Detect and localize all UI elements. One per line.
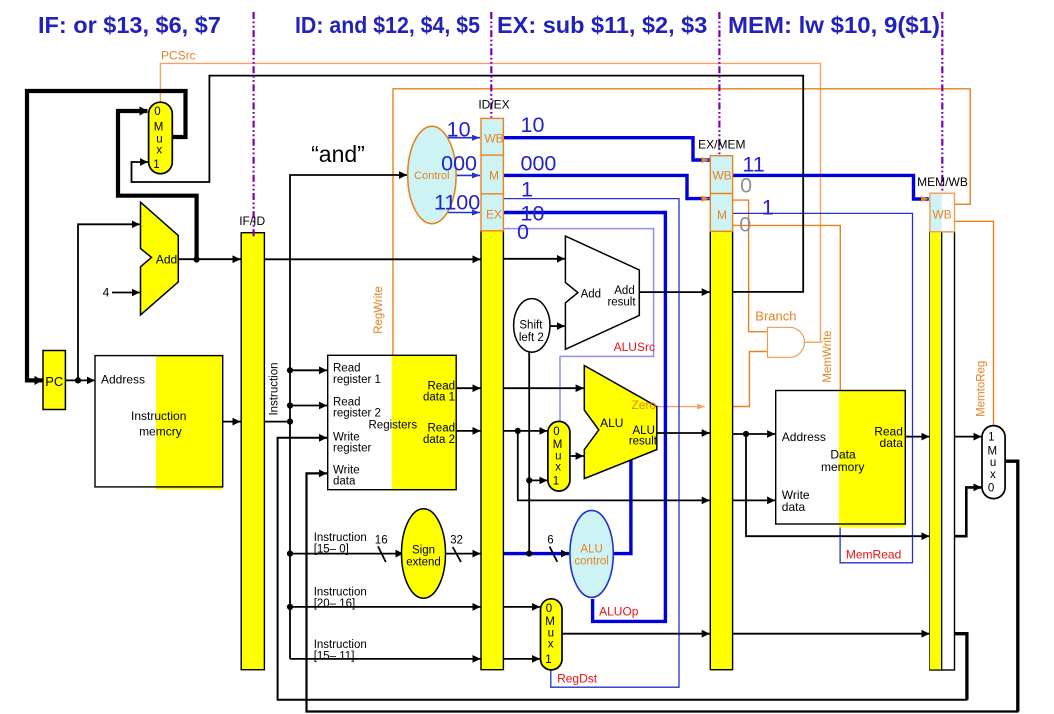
svg-text:PCSrc: PCSrc — [161, 49, 196, 63]
svg-text:Branch: Branch — [755, 308, 796, 323]
svg-text:data 1: data 1 — [423, 392, 455, 404]
svg-text:Read: Read — [333, 363, 361, 375]
svg-text:data 2: data 2 — [423, 434, 455, 446]
svg-text:Instruction: Instruction — [314, 587, 367, 599]
svg-text:IF: or $13, $6, $7: IF: or $13, $6, $7 — [38, 12, 221, 38]
svg-text:[20– 16]: [20– 16] — [314, 598, 356, 610]
svg-text:ALUSrc: ALUSrc — [614, 340, 655, 354]
svg-text:register 1: register 1 — [333, 374, 381, 386]
svg-text:data: data — [782, 500, 806, 514]
svg-text:0: 0 — [739, 212, 751, 236]
svg-text:u: u — [990, 457, 996, 469]
svg-text:ID/EX: ID/EX — [478, 98, 509, 112]
svg-text:Add: Add — [156, 253, 177, 267]
svg-text:Add: Add — [581, 289, 601, 301]
svg-text:M: M — [154, 122, 164, 134]
svg-text:0: 0 — [740, 173, 752, 197]
svg-text:register: register — [333, 443, 372, 455]
svg-text:ALU: ALU — [600, 416, 623, 430]
svg-text:0: 0 — [517, 220, 529, 244]
svg-text:[15– 0]: [15– 0] — [314, 544, 349, 556]
svg-text:result: result — [607, 297, 636, 309]
svg-text:M: M — [545, 616, 555, 628]
svg-text:M: M — [717, 208, 727, 222]
svg-text:result: result — [629, 436, 658, 448]
svg-text:Sign: Sign — [412, 545, 435, 557]
svg-text:left 2: left 2 — [519, 332, 544, 344]
svg-text:1: 1 — [553, 475, 559, 487]
svg-text:IF/ID: IF/ID — [239, 214, 265, 228]
svg-text:memcry: memcry — [139, 425, 182, 439]
svg-text:x: x — [990, 469, 996, 481]
svg-text:WB: WB — [932, 208, 951, 222]
svg-text:EX: EX — [486, 208, 502, 222]
svg-text:1100: 1100 — [434, 190, 480, 214]
svg-text:Read: Read — [428, 423, 456, 435]
svg-text:Shift: Shift — [519, 319, 543, 331]
svg-text:Instruction: Instruction — [314, 532, 367, 544]
svg-text:Instruction: Instruction — [131, 409, 186, 423]
svg-text:1: 1 — [762, 195, 774, 219]
svg-text:WB: WB — [484, 132, 503, 146]
svg-text:register 2: register 2 — [333, 408, 381, 420]
svg-text:x: x — [156, 145, 162, 157]
svg-text:32: 32 — [450, 535, 463, 547]
svg-text:control: control — [574, 556, 609, 568]
svg-text:MemtoReg: MemtoReg — [975, 361, 987, 417]
svg-text:RegDst: RegDst — [557, 672, 598, 686]
svg-text:1: 1 — [988, 431, 994, 443]
svg-text:M: M — [553, 439, 563, 451]
svg-text:10: 10 — [521, 113, 545, 137]
svg-text:MEM: lw $10, 9($1): MEM: lw $10, 9($1) — [728, 12, 940, 38]
svg-text:data: data — [880, 436, 904, 450]
svg-text:RegWrite: RegWrite — [373, 286, 385, 334]
svg-text:000: 000 — [441, 152, 477, 176]
svg-text:Instruction: Instruction — [314, 639, 367, 651]
svg-text:0: 0 — [154, 106, 160, 118]
svg-text:1: 1 — [521, 177, 533, 201]
svg-text:16: 16 — [375, 535, 388, 547]
svg-text:Zero: Zero — [631, 398, 656, 412]
svg-text:Registers: Registers — [369, 419, 418, 431]
svg-text:memory: memory — [821, 460, 864, 474]
svg-text:000: 000 — [521, 152, 557, 176]
svg-text:4: 4 — [103, 286, 110, 300]
svg-text:MemWrite: MemWrite — [822, 330, 834, 382]
svg-text:10: 10 — [447, 118, 471, 142]
svg-text:“and”: “and” — [311, 141, 365, 167]
svg-text:M: M — [988, 445, 998, 457]
svg-text:EX/MEM: EX/MEM — [698, 138, 745, 152]
svg-text:MemRead: MemRead — [846, 548, 901, 562]
svg-text:WB: WB — [712, 169, 731, 183]
svg-text:extend: extend — [406, 557, 441, 569]
svg-text:EX: sub $11, $2, $3: EX: sub $11, $2, $3 — [497, 12, 707, 38]
svg-text:6: 6 — [547, 535, 553, 547]
svg-text:0: 0 — [546, 603, 552, 615]
svg-text:[15– 11]: [15– 11] — [314, 651, 355, 663]
svg-text:M: M — [489, 169, 499, 183]
svg-text:data: data — [333, 476, 356, 488]
svg-text:Address: Address — [101, 373, 145, 387]
svg-text:x: x — [555, 462, 561, 474]
svg-text:Address: Address — [782, 430, 826, 444]
svg-text:ALU: ALU — [580, 544, 602, 556]
svg-text:Instruction: Instruction — [269, 362, 281, 415]
svg-text:Add: Add — [614, 285, 634, 297]
svg-text:ID: and $12, $4, $5: ID: and $12, $4, $5 — [295, 12, 480, 38]
svg-text:MEM/WB: MEM/WB — [917, 175, 968, 189]
svg-text:PC: PC — [45, 374, 63, 389]
svg-text:ALUOp: ALUOp — [599, 605, 639, 619]
svg-text:0: 0 — [988, 482, 994, 494]
svg-text:x: x — [548, 639, 554, 651]
svg-text:1: 1 — [153, 159, 159, 171]
svg-text:1: 1 — [545, 654, 551, 666]
svg-text:0: 0 — [553, 426, 559, 438]
